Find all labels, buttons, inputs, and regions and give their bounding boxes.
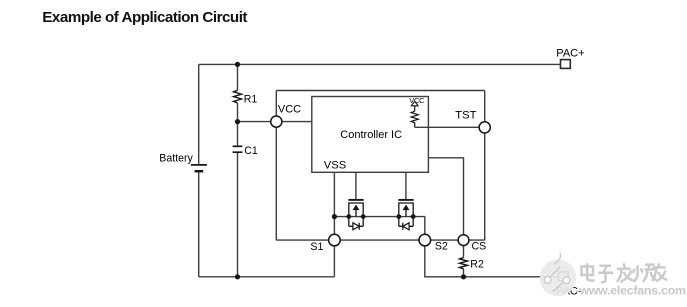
node TST terminal [479,122,490,133]
resistor R1 [234,90,242,103]
wire VCC junction to IC [238,121,312,123]
junction dot R2 bottom rail [461,274,466,279]
watermark chinese char shao [633,265,658,282]
svg-text:C1: C1 [244,145,258,157]
wire CS pin from IC [428,158,463,240]
node VCC terminal [271,116,282,127]
wire VSS pin to S1 [333,172,335,276]
junction dot R1 top rail [235,62,240,67]
svg-text:CS: CS [472,241,487,253]
node CS terminal [458,235,469,246]
wire battery negative lead [198,171,200,277]
watermark chinese char fa [617,263,633,282]
wire R1 branch top [237,64,239,90]
wire internal pull-up stem [414,106,416,112]
transistor Q2 arrow stem [405,209,407,217]
transistor Q2 gate plate [398,199,413,201]
junction dot Q2 left [396,214,401,219]
wire R2 top lead [463,240,465,258]
watermark note head 2 [563,277,570,284]
transistor Q1 arrow stem [355,209,357,217]
wire TST vertical through terminal [484,91,486,241]
wire source rail S1 S2 CS [276,239,484,241]
transistor Q1 arrow [353,205,360,211]
wire R2 bottom lead [463,269,465,277]
diode D2 body diode [399,223,413,230]
watermark note stem 1 [550,267,560,277]
svg-text:PAC+: PAC+ [556,47,584,59]
node PAC- terminal square [559,272,569,281]
node S2 terminal [419,234,431,246]
wire gate lead Q2 [405,172,407,199]
battery BT1 plate short [195,170,204,173]
watermark chinese char zi [598,266,613,282]
node PAC+ terminal square [561,60,571,69]
wire top rail VCC to TST [276,90,484,92]
wire top rail battery+ to PAC+ [199,63,561,65]
watermark note head 1 [544,276,551,283]
wire gate lead Q1 [355,172,357,199]
svg-text:TST: TST [455,109,476,121]
watermark chinese char you [652,263,667,281]
junction dot Q1 left [346,214,351,219]
transistor Q1 body [349,203,363,226]
transistor Q2 body [399,203,413,226]
wire bottom left rail battery- to S1 [199,276,335,278]
watermark logo disc [540,260,577,297]
svg-text:Controller IC: Controller IC [340,129,402,141]
capacitor C1 plate top [233,145,243,147]
resistor internal pull-up [411,111,418,127]
diode D1 body diode [349,223,363,230]
resistor R2 [460,258,468,269]
svg-text:VCC: VCC [409,96,425,105]
wire battery positive lead [198,64,200,164]
node S1 terminal [329,234,341,246]
svg-text:R1: R1 [244,94,258,106]
op-amp U1 Controller IC box [312,97,429,173]
svg-text:S2: S2 [435,240,448,252]
wire VCC vertical through terminal [275,91,277,241]
capacitor C1 plate bottom [233,151,243,153]
watermark note stem 2 [553,281,564,291]
watermark note flag [554,253,561,265]
svg-text:VSS: VSS [324,160,346,172]
watermark chinese char dian [582,263,595,280]
transistor Q2 arrow [403,205,410,211]
transistor Q1 gate plate [348,199,363,201]
wire R1 to VCC junction [237,103,239,146]
junction dot S1 leg mosfet rail [332,214,337,219]
wire C1 bottom lead [237,152,239,277]
svg-text:S1: S1 [310,241,323,253]
junction dot Q1 right [361,214,366,219]
wire TST pin horizontal [415,126,485,128]
wire mosfet source-drain rail [334,217,424,241]
junction dot VCC node [235,119,240,124]
diode arrow internal VCC [411,101,418,106]
wire bottom right rail S2 to PAC- [425,240,559,277]
junction dot Q2 right [411,214,416,219]
svg-text:Example of Application Circuit: Example of Application Circuit [42,9,247,26]
svg-text:R2: R2 [470,259,484,271]
svg-text:-www.elecfans.com: -www.elecfans.com [576,284,687,298]
junction dot C1 bottom rail [235,274,240,279]
svg-text:VCC: VCC [278,104,301,116]
svg-text:Battery: Battery [159,153,193,165]
battery BT1 plate long [191,164,207,166]
